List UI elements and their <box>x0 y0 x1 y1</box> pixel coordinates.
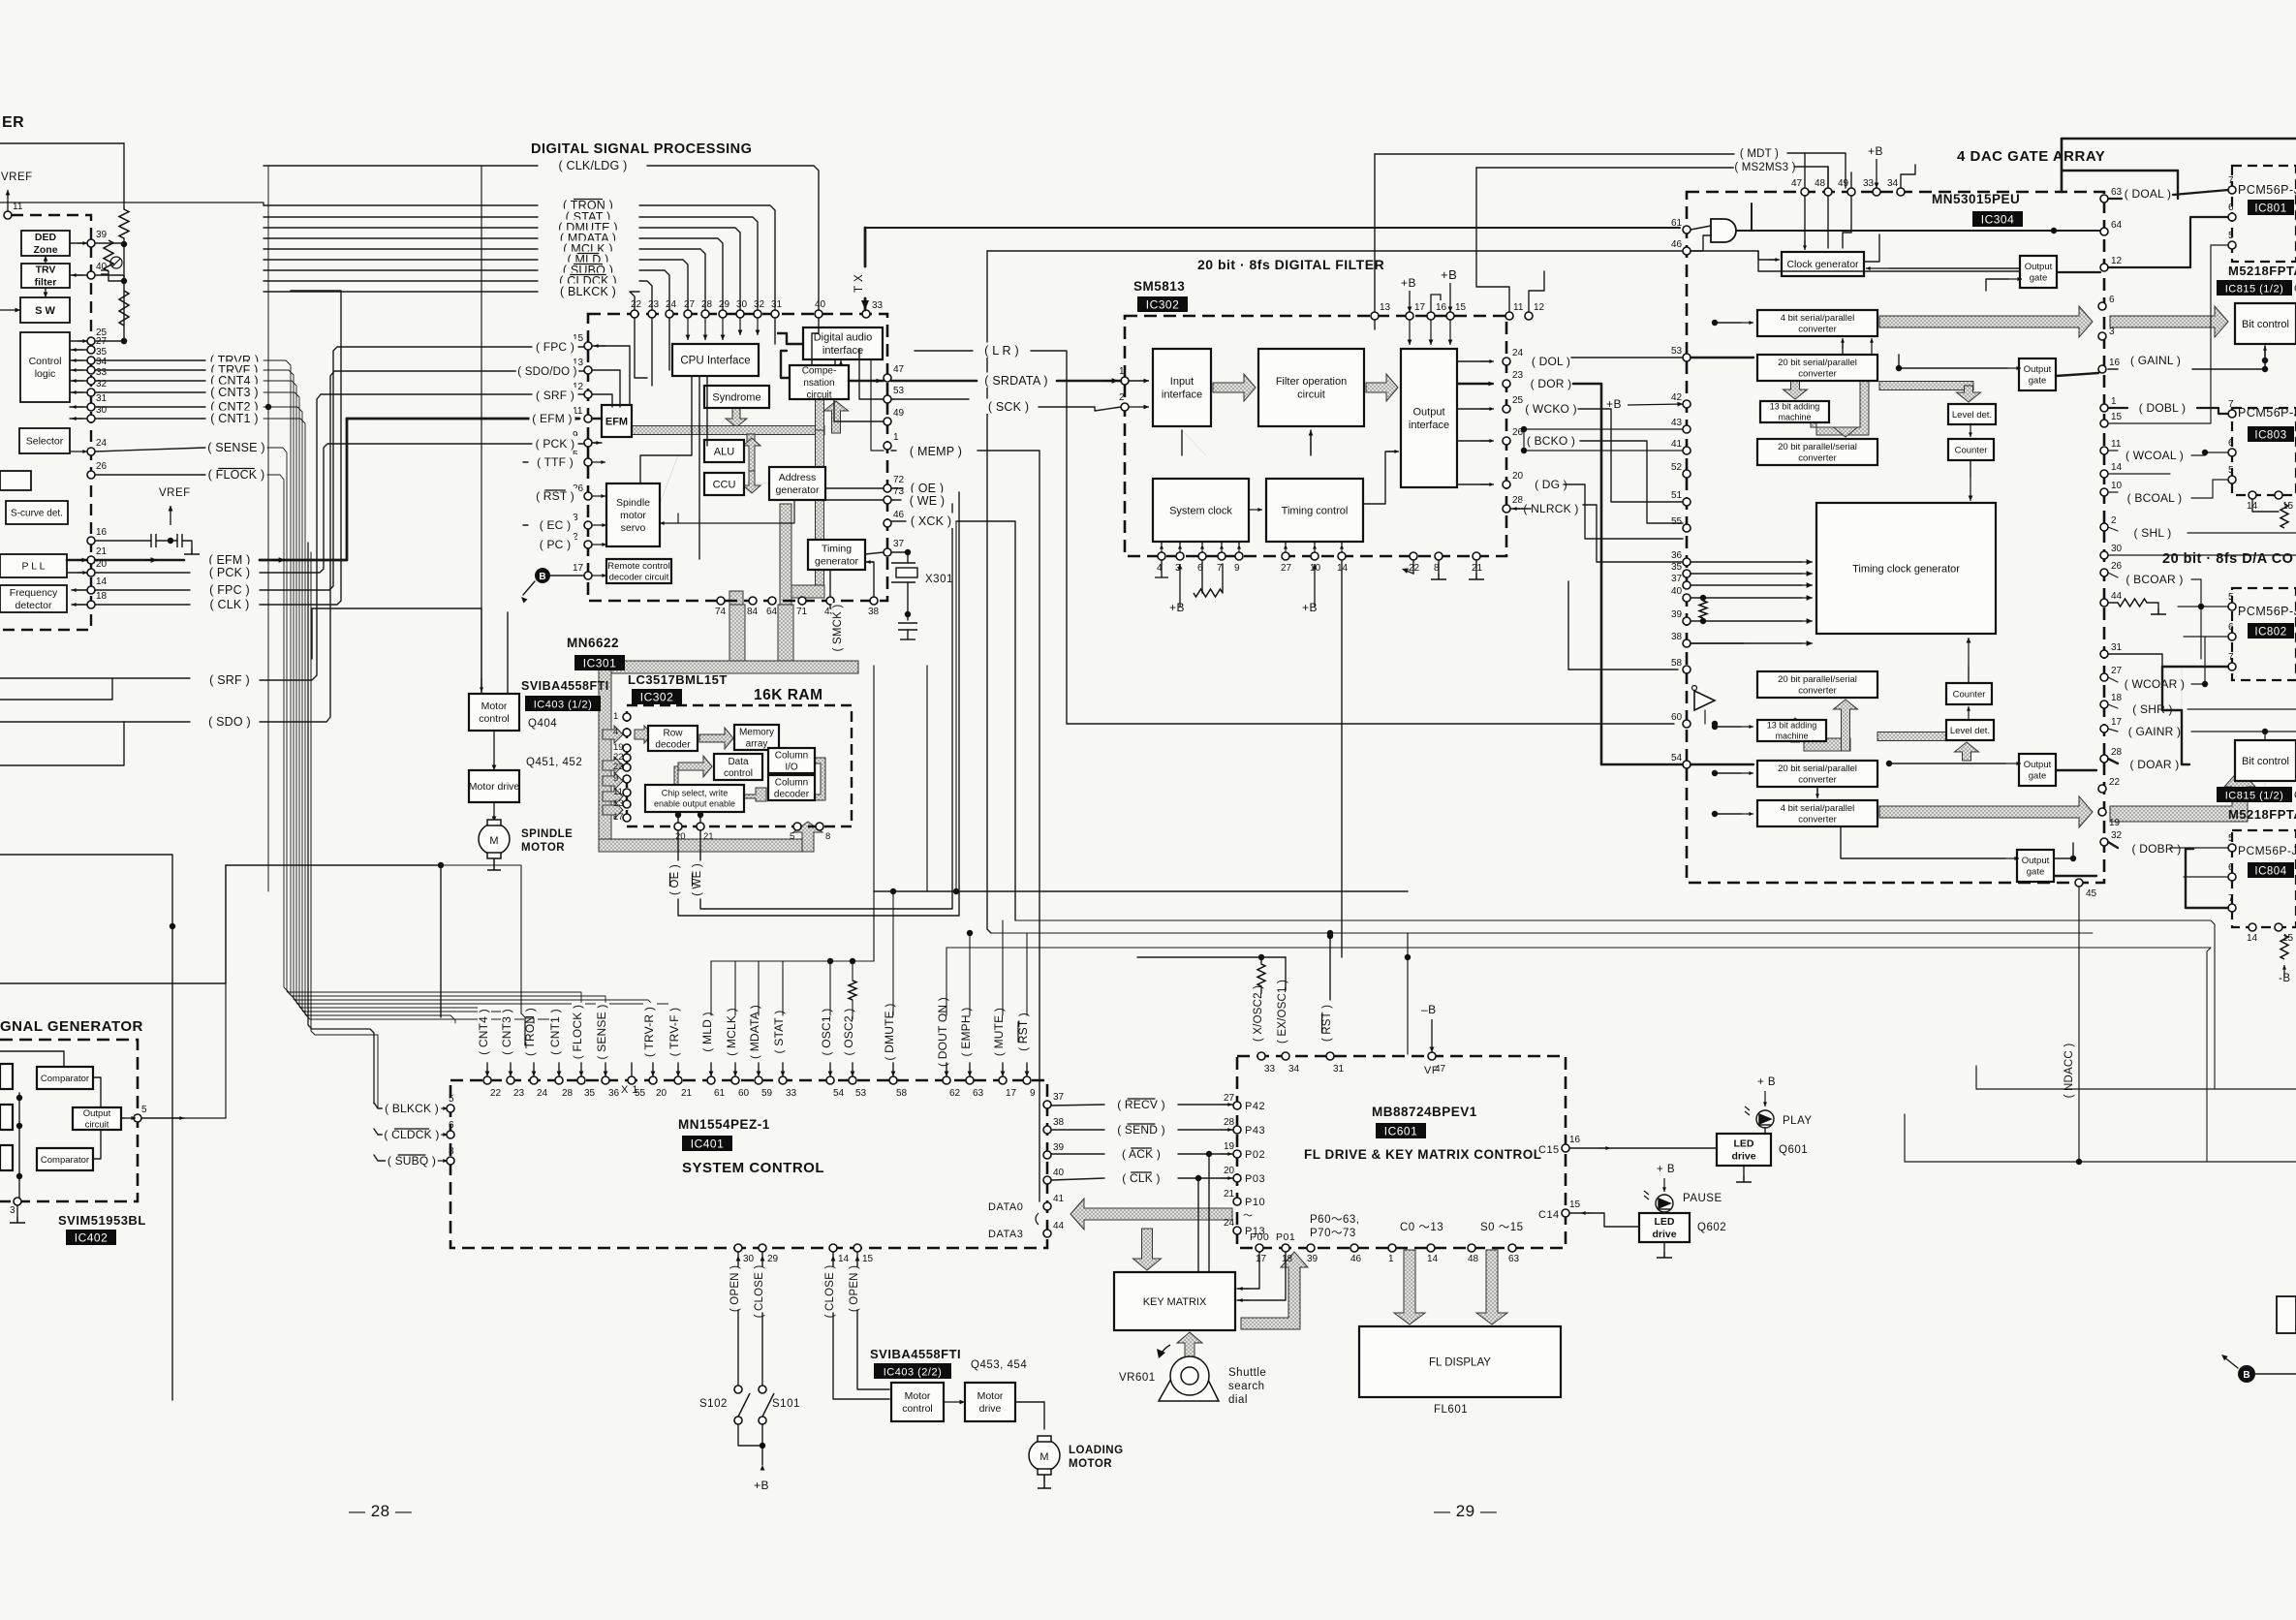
block Output interface <box>1401 349 1457 487</box>
svg-text:20: 20 <box>675 831 686 842</box>
svg-text:S102: S102 <box>699 1398 728 1410</box>
svg-text:IC402: IC402 <box>75 1231 109 1245</box>
svg-text:S W: S W <box>35 305 55 317</box>
pin 31 DAC rightedge <box>2100 642 2123 658</box>
wire pin40 to rail <box>95 275 124 281</box>
svg-text:5: 5 <box>2228 592 2234 603</box>
pin 10 filter bottom <box>1310 552 1321 574</box>
IC804 dashed boundary <box>2232 830 2296 927</box>
capacitor C16b <box>177 534 182 547</box>
arrow into sysctl y1144 <box>438 1106 448 1110</box>
gray arrow into leveldetL up <box>1955 742 1979 761</box>
svg-text:T X: T X <box>853 274 865 293</box>
svg-text:( BLKCK ): ( BLKCK ) <box>560 285 616 298</box>
junction 39a <box>1700 618 1706 624</box>
svg-text:24: 24 <box>1512 348 1524 358</box>
pin 37 DAC left <box>1671 574 1691 589</box>
pin 21 FL left <box>1224 1189 1241 1205</box>
pin 28 FL left <box>1224 1117 1241 1134</box>
signal label TTF <box>532 454 577 469</box>
svg-text:converter: converter <box>1798 775 1837 786</box>
pin 9 filter bottom <box>1234 552 1243 574</box>
svg-text:( CNT3 ): ( CNT3 ) <box>210 386 259 399</box>
wire DOAL thick <box>2108 198 2122 200</box>
signal label DMUTE vert <box>883 1003 897 1061</box>
pin 14 DAC rightedge <box>2100 462 2123 478</box>
pin 11 DAC rightedge <box>2100 439 2122 454</box>
arrow +B pin3 <box>1178 564 1183 607</box>
wire SDO right <box>260 371 584 722</box>
svg-text:14: 14 <box>96 576 108 587</box>
arrow DED-TRV <box>44 256 48 264</box>
signal label MLD <box>565 252 612 267</box>
svg-text:MB88724BPEV1: MB88724BPEV1 <box>1372 1105 1477 1119</box>
wire MLD to DSP pin <box>639 260 688 310</box>
signal label DOUT ON vert <box>936 996 950 1068</box>
svg-text:4: 4 <box>613 727 618 737</box>
svg-text:39: 39 <box>1671 609 1683 620</box>
wire comp to 47 thick <box>849 380 884 383</box>
arrow RST in <box>592 494 605 498</box>
signal label SDO/DO <box>516 364 578 379</box>
wire DMUTE to DSP pin <box>639 228 740 310</box>
svg-text:Comparator: Comparator <box>41 1074 89 1084</box>
wire EFM block in <box>592 418 602 421</box>
svg-text:54: 54 <box>833 1088 845 1099</box>
TX arrowhead <box>861 300 869 310</box>
arrow ctrl 31 <box>72 405 83 409</box>
signal label SENSE vert <box>595 1003 609 1061</box>
svg-text:System clock: System clock <box>1169 505 1232 516</box>
wire 6 IC804 feed <box>2184 876 2228 878</box>
gray arrow 13addL up <box>1784 718 1808 742</box>
svg-text:P42: P42 <box>1245 1101 1265 1112</box>
block Memory array <box>734 725 779 750</box>
wire riser x277 <box>267 166 269 891</box>
pin 48 DAC top <box>1815 178 1832 196</box>
signal label DMUTE <box>558 220 619 235</box>
svg-text:PCM56P-J: PCM56P-J <box>2238 605 2296 618</box>
wire pin47 up <box>1804 153 1806 188</box>
svg-text:58: 58 <box>1671 658 1683 669</box>
pin 21 RAM <box>697 823 714 842</box>
wire CNT4 bend down <box>264 381 487 1023</box>
svg-text:( BLKCK ): ( BLKCK ) <box>385 1102 439 1115</box>
svg-text:MOTOR: MOTOR <box>521 842 565 854</box>
wire OE continue <box>678 492 959 916</box>
junction 21 <box>698 812 703 818</box>
gray path 13add-20ps <box>1811 381 1869 435</box>
arrow out-5 <box>124 1116 136 1120</box>
wire xtal down <box>907 552 909 563</box>
svg-text:14: 14 <box>1427 1254 1439 1264</box>
pin 5 siggen <box>134 1105 147 1122</box>
block Digital audio interface <box>803 327 883 359</box>
svg-text:2: 2 <box>1119 392 1125 403</box>
signal label SUBQ <box>561 263 615 278</box>
arrow into sysctl y1171 <box>438 1133 448 1137</box>
wire to label CNT4 <box>95 380 205 382</box>
signal label CNT4 vert <box>477 1006 491 1058</box>
gray arrow into RAM pins 5-8 <box>793 822 822 852</box>
wire into 20spL stub <box>1715 772 1741 774</box>
svg-text:( NLRCK ): ( NLRCK ) <box>1523 502 1578 515</box>
wire 46 to and <box>1691 235 1711 251</box>
LED PAUSE rays <box>1644 1191 1649 1199</box>
IC402 dashed boundary <box>0 1040 138 1201</box>
junction rst <box>1327 933 1333 939</box>
svg-text:circuit: circuit <box>806 389 831 400</box>
arrow leveldet-counter <box>1969 424 1972 437</box>
svg-text:decoder: decoder <box>655 740 691 751</box>
wire PLL to 21 thick <box>67 559 87 562</box>
junction ack <box>1206 1151 1212 1157</box>
wire CLK/LDG right <box>647 166 819 310</box>
block CPU Interface <box>672 344 759 376</box>
junction DMUTE band <box>890 888 896 894</box>
gray input arrow RAM y790 <box>603 757 623 774</box>
block LED drive Q602 <box>1639 1213 1690 1242</box>
signal label SENSE <box>206 440 267 455</box>
junction and-64 <box>2051 228 2057 234</box>
wire collector y992 <box>711 960 874 962</box>
pin 23 filter right <box>1503 370 1524 388</box>
svg-text:36: 36 <box>608 1088 620 1099</box>
wire pin down x860 <box>832 1252 834 1266</box>
pin 22 SYSCTL top <box>483 1076 502 1099</box>
svg-text:Row: Row <box>663 728 683 738</box>
svg-text:63: 63 <box>2111 187 2123 198</box>
svg-text:17: 17 <box>1414 302 1426 313</box>
svg-text:49: 49 <box>893 408 905 419</box>
svg-text:25: 25 <box>1512 395 1524 406</box>
svg-text:Q601: Q601 <box>1779 1144 1808 1156</box>
wire WE continue <box>700 504 952 909</box>
svg-text:28: 28 <box>562 1088 574 1099</box>
wire 7 IC802 vert thick <box>2161 667 2163 710</box>
block Output gate 2 <box>2019 358 2056 390</box>
svg-text:53: 53 <box>1671 346 1683 357</box>
wire dac top right <box>2062 171 2178 199</box>
pin 55 SYSCTL top <box>628 1076 646 1099</box>
pin 12 DAC rightedge <box>2100 256 2123 271</box>
wire DOBL thick <box>2108 266 2122 268</box>
wire DOR thick right-down <box>1573 384 1683 764</box>
pin 16 <box>87 527 108 545</box>
wire timing 38 up <box>865 562 874 597</box>
chip label IC815 (1/2) U <box>2217 280 2292 296</box>
wire riser RST <box>1026 933 1028 1015</box>
svg-text:Output: Output <box>2022 856 2050 866</box>
arrow PLL-21 <box>78 558 87 563</box>
wire C15 to Q601 <box>1569 1147 1717 1149</box>
svg-text:39: 39 <box>96 230 108 240</box>
svg-text:27: 27 <box>684 299 696 310</box>
pin 5 SYSCTL <box>447 1094 454 1112</box>
signal label STAT <box>561 209 615 225</box>
arrow ctrl 30 <box>72 417 83 421</box>
svg-text:23: 23 <box>648 299 660 310</box>
wire MCLK to DSP pin <box>639 249 705 310</box>
signal label FPC <box>206 582 254 598</box>
pin 53 SYSCTL top <box>849 1076 867 1099</box>
svg-text:( TRV-R ): ( TRV-R ) <box>642 1007 656 1057</box>
arrow DED to 39 <box>78 241 87 245</box>
arrow 20sp-4sp b <box>1870 338 1874 355</box>
wire 58 elbow <box>1568 669 1678 670</box>
signal label CNT3 <box>207 385 262 400</box>
signal label MCLK <box>561 241 615 257</box>
wire og1 left <box>1758 251 2020 271</box>
svg-text:Data: Data <box>728 757 749 767</box>
wire MLD up <box>710 1063 712 1076</box>
gray bus EFM row <box>632 426 824 435</box>
arrowhead DOUT ON down <box>945 1072 949 1077</box>
arrowhead pin up x860 <box>831 1256 836 1262</box>
svg-text:17: 17 <box>2111 717 2123 728</box>
capacitor xtal <box>898 623 917 630</box>
block Column decoder <box>768 775 815 800</box>
wire out20 <box>1457 483 1492 485</box>
wire exosc1 up <box>1285 957 1287 990</box>
svg-text:EFM: EFM <box>605 416 628 427</box>
svg-text:( FPC ): ( FPC ) <box>209 583 250 597</box>
wire sysclk pin 1241 <box>1201 542 1203 545</box>
svg-text:11: 11 <box>1513 302 1524 313</box>
signal label OSC2 vert <box>842 1006 856 1058</box>
chip label IC403 (1/2) <box>525 696 601 711</box>
svg-text:M5218FPTA: M5218FPTA <box>2228 807 2296 822</box>
pin 12 filter <box>1525 302 1545 320</box>
svg-text:14: 14 <box>838 1254 850 1264</box>
arrow out25 <box>1480 407 1494 411</box>
arrow PLL-20 <box>78 571 87 575</box>
gray input arrow RAM y822 <box>603 788 623 805</box>
wire addr to 72 <box>825 487 884 489</box>
svg-text:( DOUT ON ): ( DOUT ON ) <box>936 997 949 1067</box>
arrow 20spL-4spL <box>1815 789 1819 798</box>
arrow -B fl <box>1430 1019 1435 1052</box>
pin 72 DSP right <box>884 475 905 492</box>
LED PAUSE <box>1656 1195 1673 1212</box>
block Counter U <box>1948 439 1994 460</box>
signal label GAINR <box>2125 724 2184 738</box>
wire to label CNT1 <box>95 418 205 420</box>
pin 14 IC803 <box>2247 491 2258 512</box>
block Motor control 2 <box>891 1383 944 1421</box>
arrow 14 to freq <box>72 588 87 592</box>
wire GAINL right <box>2192 346 2265 369</box>
wire WE pin left <box>891 499 901 501</box>
wire timing down 43 <box>829 570 831 597</box>
signal label DOBR <box>2130 841 2183 856</box>
switch S102 top <box>734 1386 742 1393</box>
svg-text:( SCK ): ( SCK ) <box>988 400 1029 414</box>
block Motor control Q404 <box>469 694 519 731</box>
block 20bit sp converter L <box>1757 761 1877 787</box>
svg-text:7: 7 <box>1217 563 1223 574</box>
chip label IC302 filter <box>1137 296 1188 312</box>
arrow into sysctl y1198 <box>438 1159 448 1163</box>
svg-text:detector: detector <box>16 600 52 611</box>
cap symbol near 40 <box>101 270 109 274</box>
svg-text:5: 5 <box>141 1105 147 1115</box>
pin 20 FL left <box>1224 1166 1241 1182</box>
svg-text:71: 71 <box>796 607 808 617</box>
svg-text:33: 33 <box>872 300 884 311</box>
resistor 40-39 <box>1699 601 1707 618</box>
gray arrow C to FLDISP <box>1394 1250 1425 1324</box>
wire left edge to 233 <box>0 865 226 983</box>
svg-text:34: 34 <box>1887 178 1899 189</box>
svg-text:19: 19 <box>2109 818 2121 828</box>
arrowhead TRV-F down <box>676 1072 681 1077</box>
svg-text:35: 35 <box>584 1088 596 1099</box>
svg-text:S101: S101 <box>772 1398 800 1410</box>
pin 25 <box>87 327 108 345</box>
wire close14 down <box>833 1313 889 1399</box>
arrow into timing <box>866 560 874 564</box>
wire long bus B <box>991 932 2093 934</box>
block PLL <box>0 554 67 577</box>
block DED Zone <box>21 231 70 256</box>
wire R-b stub <box>109 271 124 281</box>
svg-text:39: 39 <box>1053 1142 1065 1153</box>
signal label BLKCK <box>558 284 619 299</box>
signal label EFM <box>206 552 254 568</box>
pin 19 RAM left <box>613 742 631 753</box>
arrow -B <box>2282 965 2286 977</box>
svg-text:20 bit · 8fs DIGITAL FILTER: 20 bit · 8fs DIGITAL FILTER <box>1197 257 1384 272</box>
arrowhead tcg y641 <box>1807 618 1813 624</box>
svg-text:Bit control: Bit control <box>2242 319 2289 330</box>
svg-text:SPINDLE: SPINDLE <box>521 828 573 840</box>
signal label MDATA vert <box>748 1003 762 1061</box>
gray arrow alu-up <box>743 438 760 471</box>
wire SRDATA thick right <box>1057 380 1121 383</box>
svg-text:20 bit · 8fs D/A CO: 20 bit · 8fs D/A CO <box>2162 551 2293 567</box>
wire tcg in y641 <box>1691 620 1802 622</box>
block 13bit adding U <box>1760 401 1829 422</box>
wire cg in1 <box>1804 196 1806 248</box>
svg-text:( SDO ): ( SDO ) <box>208 715 251 729</box>
pin 5 IC801 <box>2228 231 2236 249</box>
signal label MUTE vert <box>992 1006 1007 1058</box>
arrow up sysclk 1261 <box>1220 545 1224 552</box>
svg-text:logic: logic <box>35 368 56 380</box>
svg-text:TRV: TRV <box>36 265 56 276</box>
arrowhead EMPH down <box>968 1072 973 1077</box>
svg-text:11: 11 <box>613 787 623 797</box>
arrow counter-tcg <box>1969 477 1973 501</box>
wire PCK <box>95 572 190 574</box>
svg-text:21: 21 <box>1224 1189 1235 1199</box>
svg-text:S0 〜15: S0 〜15 <box>1480 1222 1524 1233</box>
wire WCOAL path <box>2108 450 2118 452</box>
wire pin14 stub <box>2108 473 2170 475</box>
arrow up into chipselect 20 <box>677 814 679 822</box>
pin 29 DSP top <box>719 299 730 318</box>
wire pin44 gnd <box>2147 603 2158 608</box>
svg-text:Timing clock generator: Timing clock generator <box>1852 563 1960 575</box>
pin 35 SYSCTL top <box>577 1076 596 1099</box>
wire XCK right <box>956 521 1015 920</box>
pin 25 filter right <box>1503 395 1524 413</box>
partial box bottom right <box>2277 1296 2296 1333</box>
junction bus emph <box>967 930 973 936</box>
block LED drive Q601 <box>1717 1134 1771 1166</box>
wire pin 40 to TRV <box>70 274 91 276</box>
signal label X/OSC2 <box>1253 982 1266 1044</box>
junction at 25 rail <box>121 338 127 344</box>
svg-text:( SRF ): ( SRF ) <box>209 673 250 687</box>
svg-text:15: 15 <box>2111 412 2123 422</box>
pin 24 SYSCTL top <box>530 1076 548 1099</box>
signal label PCK <box>206 565 254 580</box>
svg-text:P10: P10 <box>1245 1197 1265 1208</box>
svg-text:47: 47 <box>893 364 905 375</box>
arrow +B pin10 <box>1313 564 1318 607</box>
signal label TRV-F vert <box>667 1003 682 1061</box>
signal label LR <box>978 343 1026 358</box>
junction xtal top <box>905 549 911 555</box>
svg-text:interface: interface <box>1409 420 1449 431</box>
wire CLK/LDG left <box>264 165 538 167</box>
pin 23 RAM left <box>613 762 631 772</box>
pin 53 DSP right <box>884 386 905 403</box>
signal label TRON vert <box>523 1006 538 1058</box>
svg-text:CCU: CCU <box>713 479 736 490</box>
wire input up arrow <box>1181 430 1183 455</box>
svg-text:DED: DED <box>35 232 57 243</box>
arrow into mc <box>480 678 483 692</box>
bracket 16 <box>1431 295 1441 312</box>
arrow c15 <box>1598 1146 1610 1150</box>
pin 5 IC804 <box>2228 833 2236 852</box>
svg-text:C0 〜13: C0 〜13 <box>1400 1222 1443 1233</box>
arrow +B 15 <box>1448 283 1453 312</box>
svg-text:( CNT3 ): ( CNT3 ) <box>500 1009 513 1055</box>
junction sg1 <box>16 1095 22 1101</box>
svg-text:( SDO/DO ): ( SDO/DO ) <box>517 366 576 378</box>
svg-text:Output: Output <box>2024 760 2052 770</box>
block Level det U <box>1948 404 1996 424</box>
svg-text:24: 24 <box>96 438 108 449</box>
wire TRON to DSP pin <box>639 205 775 310</box>
pin 13 filter <box>1371 302 1391 320</box>
pin 30 SYSCTL bottom <box>734 1244 755 1264</box>
pin 58 DAC left <box>1671 658 1691 673</box>
arrow into 4sp <box>1741 321 1753 325</box>
pin 28 SYSCTL top <box>555 1076 574 1099</box>
wire 12 to IC801 pin6 <box>2108 217 2228 267</box>
wire STAT to DSP pin <box>639 217 758 310</box>
svg-text:( MLD ): ( MLD ) <box>700 1012 714 1051</box>
svg-text:17: 17 <box>573 563 584 574</box>
svg-text:( SHL ): ( SHL ) <box>2134 526 2172 540</box>
pin 34 DAC top <box>1887 178 1905 196</box>
pin 10 DAC rightedge <box>2100 481 2123 496</box>
IC304 DAC dashed boundary <box>1687 192 2104 883</box>
wire chip sel to 21 <box>699 812 701 823</box>
wire EMPH up <box>969 1063 971 1076</box>
svg-text:29: 29 <box>767 1254 779 1264</box>
svg-text:22: 22 <box>490 1088 502 1099</box>
svg-text:( TTF ): ( TTF ) <box>537 455 574 469</box>
wire pin25 <box>70 340 87 342</box>
wire SDO row <box>0 721 190 723</box>
wire bus2 down <box>987 251 991 933</box>
